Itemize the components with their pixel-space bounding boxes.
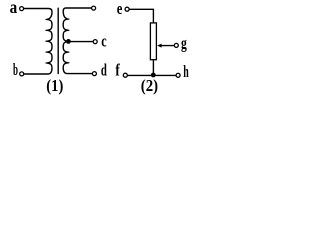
svg-text:g: g bbox=[181, 34, 187, 53]
svg-text:f: f bbox=[115, 61, 120, 80]
svg-text:b: b bbox=[13, 60, 18, 79]
svg-text:(1): (1) bbox=[46, 76, 63, 95]
svg-text:d: d bbox=[101, 61, 107, 80]
svg-text:c: c bbox=[101, 31, 107, 50]
svg-text:a: a bbox=[10, 0, 18, 17]
svg-text:h: h bbox=[183, 62, 189, 81]
svg-text:e: e bbox=[117, 0, 123, 18]
svg-text:(2): (2) bbox=[141, 76, 158, 95]
